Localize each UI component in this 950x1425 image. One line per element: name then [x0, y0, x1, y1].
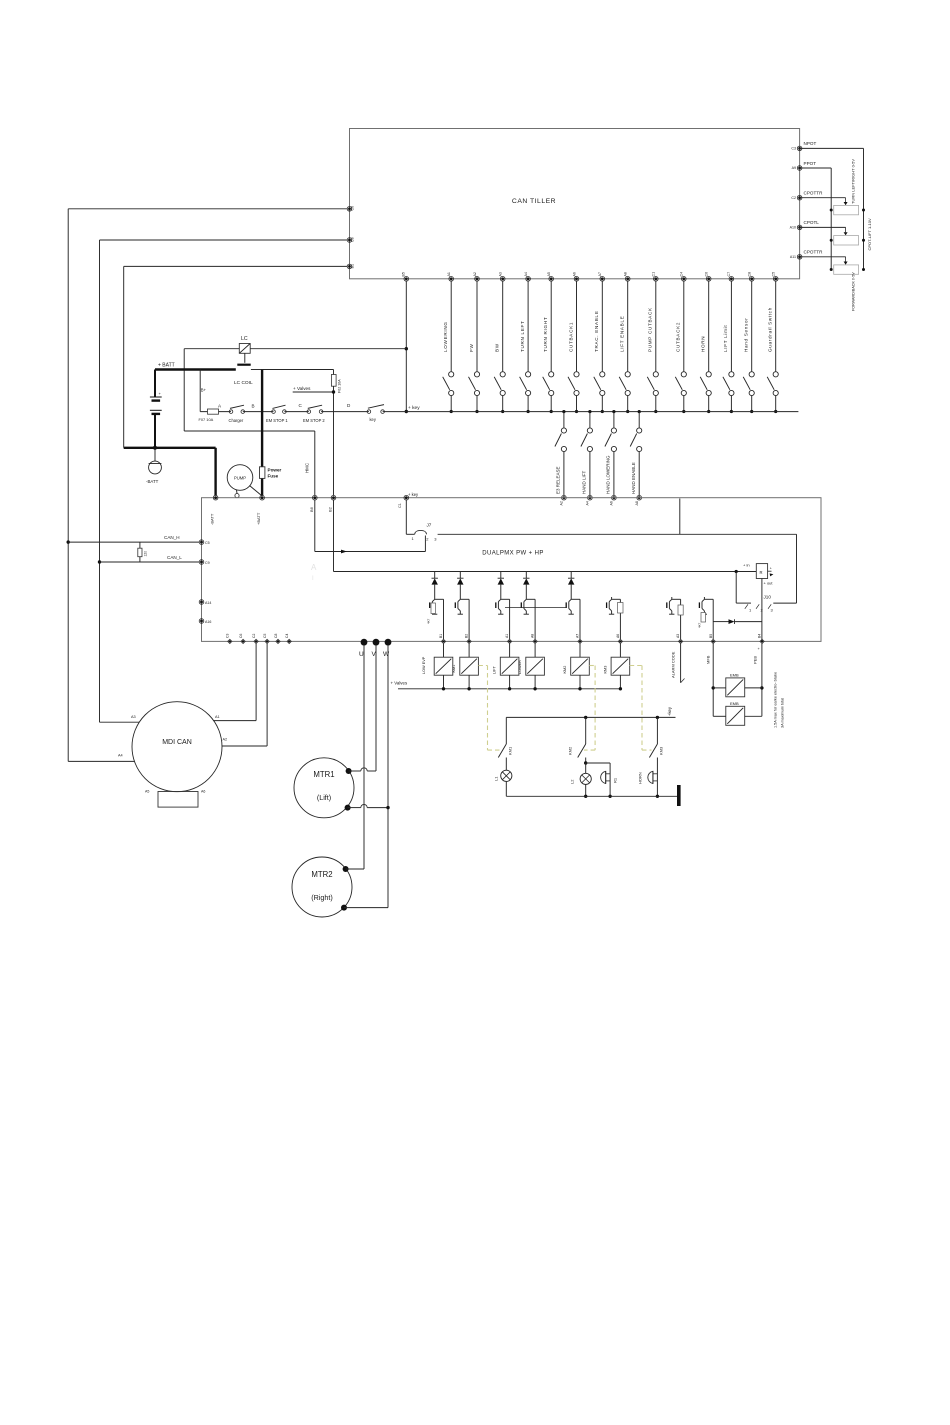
- svg-text:C3: C3: [226, 634, 230, 638]
- svg-text:C5: C5: [263, 634, 267, 638]
- svg-text:B5: B5: [402, 272, 406, 276]
- svg-text:A6: A6: [201, 790, 205, 794]
- svg-text:CPOTTR: CPOTTR: [804, 250, 824, 255]
- wire CPOT wiper 2: [800, 227, 848, 235]
- svg-text:LOWERING: LOWERING: [443, 321, 448, 352]
- coil KM3: [604, 644, 630, 691]
- svg-text:HORN: HORN: [701, 336, 706, 352]
- note electro-brake: [774, 672, 785, 728]
- pin C1 +key (DUALPMX): [398, 492, 419, 508]
- svg-text:F02 10A: F02 10A: [338, 379, 342, 393]
- svg-text:R: R: [760, 570, 763, 575]
- svg-text:A2: A2: [560, 501, 564, 505]
- driver MOSFET MFB: [698, 597, 714, 639]
- wire lamp return: [506, 795, 677, 797]
- pin A10 CPOTL (CAN TILLER right): [790, 220, 820, 230]
- lamp L1: [494, 770, 512, 796]
- svg-text:B4: B4: [758, 634, 762, 638]
- svg-text:A11: A11: [790, 255, 796, 259]
- svg-text:PUMP CUTBACK: PUMP CUTBACK: [648, 307, 653, 352]
- contact EM STOP 1: [266, 403, 303, 423]
- svg-text:A7: A7: [576, 634, 580, 638]
- label MDI A4: [118, 754, 123, 758]
- pin C8 (DUALPMX bottom): [274, 634, 280, 644]
- svg-text:C3: C3: [791, 147, 796, 151]
- svg-text:-BATT: -BATT: [146, 479, 159, 484]
- svg-text:A2: A2: [473, 272, 477, 276]
- svg-text:MDI CAN: MDI CAN: [162, 739, 192, 746]
- wire LC coil right to B5: [250, 348, 406, 350]
- resistor R (+in): [743, 563, 773, 586]
- svg-text:+: +: [770, 567, 772, 571]
- wire rail3 (B1 to -BATT): [124, 266, 348, 447]
- svg-text:EMB: EMB: [730, 672, 739, 677]
- wire C1 to J7 pin1: [406, 500, 414, 534]
- svg-text:A8: A8: [635, 501, 639, 505]
- line ALARM CODE: [671, 644, 685, 683]
- svg-text:A3: A3: [131, 715, 136, 719]
- svg-text:KM1: KM1: [508, 746, 513, 755]
- wire MTR1 bottom to W: [348, 804, 390, 809]
- svg-text:PPOT: PPOT: [804, 161, 817, 166]
- svg-text:C6: C6: [705, 272, 709, 277]
- switch LOWERING (pin A1): [443, 272, 454, 413]
- label FORWARD/BACK 0-5V: [852, 272, 856, 311]
- svg-text:4K7: 4K7: [427, 618, 431, 624]
- wire +key lamp rail: [506, 706, 675, 717]
- buzzer R1: [586, 763, 618, 798]
- switch HORN (pin C6): [700, 272, 711, 413]
- svg-text:HMC: HMC: [304, 463, 309, 473]
- svg-text:Fuse: Fuse: [268, 474, 279, 479]
- link KM2 dashed: [584, 666, 595, 751]
- svg-text:NPOT: NPOT: [804, 141, 817, 146]
- svg-text:C9: C9: [205, 561, 210, 565]
- pin B2 (DUALPMX): [328, 495, 336, 512]
- pin C5 (DUALPMX bottom): [263, 634, 269, 644]
- terminal W: [383, 639, 391, 658]
- wire LC coil left to B6 (HMC): [184, 349, 315, 496]
- svg-text:C4: C4: [285, 634, 289, 638]
- pin C8 (CAN TILLER left 2): [347, 237, 354, 242]
- fuse F07 10A: [199, 404, 223, 422]
- svg-text:(Right): (Right): [311, 893, 333, 902]
- label TURN LEFT/RIGHT 0-5V: [851, 159, 856, 204]
- svg-text:+ Valves: + Valves: [293, 386, 311, 391]
- coil LOW EVP: [422, 644, 453, 691]
- svg-text:B2: B2: [465, 634, 469, 638]
- svg-text:A2: A2: [223, 738, 228, 742]
- svg-text:A3: A3: [499, 272, 503, 276]
- svg-text:A1: A1: [447, 272, 451, 276]
- svg-text:C5: C5: [772, 272, 776, 277]
- pin -BATT (DUALPMX): [210, 495, 218, 525]
- pin A8 (DUALPMX bottom right): [531, 634, 538, 644]
- pin A7 (DUALPMX bottom right): [576, 634, 583, 644]
- diode MFB to PEB: [713, 619, 762, 624]
- svg-text:1.5A max for earke electro- br: 1.5A max for earke electro- brake: [774, 672, 778, 728]
- svg-text:EMB: EMB: [730, 701, 739, 706]
- svg-text:DUALPMX PW + HP: DUALPMX PW + HP: [482, 551, 544, 557]
- svg-text:HAND LIFT: HAND LIFT: [582, 470, 587, 494]
- svg-text:A4: A4: [524, 272, 528, 276]
- pin C4 (DUALPMX bottom): [285, 634, 291, 644]
- wire NPOT to pot column: [800, 148, 864, 269]
- svg-text:LIFT: LIFT: [493, 666, 497, 674]
- svg-text:-BATT: -BATT: [210, 513, 215, 525]
- fuse F02 10A (+Valves): [262, 370, 341, 496]
- wire B+ drop: [199, 370, 201, 412]
- controller CAN TILLER: [350, 129, 800, 279]
- switch Guardrail Switch (pin C5): [767, 272, 778, 413]
- svg-text:LC: LC: [241, 336, 248, 342]
- contact Charger: [229, 404, 255, 423]
- svg-text:+ in: + in: [743, 563, 750, 568]
- svg-text:+ Valves: + Valves: [391, 681, 408, 686]
- pin A3 (DUALPMX bottom right): [676, 634, 683, 644]
- wire MTR2 top to U: [346, 868, 364, 870]
- svg-text:TRAC. ENABLE: TRAC. ENABLE: [594, 310, 599, 352]
- svg-text:C5: C5: [205, 541, 210, 545]
- svg-text:CPOTL: CPOTL: [804, 220, 820, 225]
- driver MOSFET ALARM CODE: [667, 597, 683, 639]
- switch HAND LIFT: [581, 410, 593, 506]
- svg-text:B1: B1: [439, 634, 443, 638]
- svg-text:E3 RELEASE: E3 RELEASE: [556, 466, 561, 494]
- svg-text:R1: R1: [613, 777, 618, 783]
- motor MTR1 (Lift): [294, 758, 354, 818]
- driver MOSFET LOW EVP: [430, 572, 444, 640]
- svg-text:EM STOP 2: EM STOP 2: [303, 418, 325, 423]
- connector J10: [736, 572, 773, 642]
- display MDI CAN: [132, 702, 222, 807]
- link KM1 dashed: [478, 666, 500, 751]
- wire CAN_H: [67, 535, 200, 544]
- wire MFB: [706, 644, 715, 717]
- key line A-B-C-D: [200, 411, 798, 413]
- svg-text:A10: A10: [790, 226, 796, 230]
- svg-text:FW: FW: [469, 343, 474, 352]
- svg-text:B+: B+: [201, 388, 207, 393]
- potentiometer 2: [830, 236, 865, 245]
- ground: [677, 785, 681, 806]
- wire MDI A1: [214, 644, 257, 721]
- svg-text:+BATT: +BATT: [256, 512, 261, 525]
- pin B5 (DUALPMX bottom right): [709, 634, 716, 644]
- svg-text:key: key: [370, 417, 377, 422]
- wire CPOT wiper 3: [800, 257, 848, 265]
- svg-text:KM3: KM3: [604, 666, 608, 674]
- horn HORN: [638, 771, 658, 784]
- svg-text:A4: A4: [118, 754, 123, 758]
- svg-text:J7: J7: [427, 523, 432, 528]
- wire B5 to LC coil and +key: [405, 281, 408, 413]
- coil LIFT: [493, 644, 519, 691]
- coil EMB 1: [713, 672, 762, 697]
- switch FW (pin A2): [469, 272, 480, 413]
- svg-text:Power: Power: [268, 468, 282, 473]
- svg-text:A7: A7: [598, 272, 602, 276]
- switch TURN RIGHT (pin A5): [543, 272, 554, 413]
- svg-text:C6: C6: [351, 206, 355, 211]
- watermark: [311, 563, 317, 582]
- svg-text:U: U: [359, 651, 364, 658]
- svg-text:Charger: Charger: [229, 418, 244, 423]
- label MDI A3: [131, 715, 136, 719]
- svg-text:A14: A14: [205, 601, 211, 605]
- svg-text:A1: A1: [505, 634, 509, 638]
- svg-text:CAN TILLER: CAN TILLER: [512, 198, 556, 205]
- svg-text:A8: A8: [624, 272, 628, 276]
- svg-text:TURN LEFT: TURN LEFT: [520, 320, 525, 352]
- svg-text:L2: L2: [570, 779, 575, 784]
- driver MOSFET LOWER: [521, 572, 535, 640]
- wire -BATT thick: [124, 446, 216, 496]
- svg-text:LIFT ENABLE: LIFT ENABLE: [620, 316, 625, 352]
- switch CUTBACK2 (pin C4): [675, 272, 686, 413]
- svg-text:B1: B1: [351, 264, 355, 268]
- wire V phase: [375, 646, 377, 771]
- wire U phase: [363, 646, 365, 869]
- svg-text:C2: C2: [252, 634, 256, 638]
- pin C9 CAN_L: [199, 560, 209, 565]
- coil EMB 2: [713, 701, 762, 725]
- driver MOSFET KM2: [566, 572, 580, 640]
- svg-text:A4: A4: [586, 501, 590, 505]
- switch CUTBACK1 (pin A6): [568, 272, 579, 413]
- contactor LC: [237, 336, 250, 365]
- wire B2 internal rail: [334, 500, 757, 573]
- svg-text:B6: B6: [309, 506, 314, 512]
- svg-text:3A maximum total: 3A maximum total: [781, 698, 785, 728]
- coil LOWER: [518, 644, 544, 691]
- wire MTR2 bottom to W: [344, 907, 388, 909]
- svg-text:C1: C1: [652, 272, 656, 277]
- wire PEB: [753, 644, 764, 717]
- svg-text:C6: C6: [239, 634, 243, 638]
- pin A1 (DUALPMX bottom right): [505, 634, 512, 644]
- pin C2 CPOTTR (CAN TILLER right): [791, 191, 823, 201]
- driver MOSFET KM1: [455, 572, 469, 640]
- wire rail1 (C6 to CAN_H to MDI A4): [68, 209, 347, 762]
- svg-text:B5: B5: [709, 634, 713, 638]
- svg-text:LC COIL: LC COIL: [234, 380, 253, 386]
- svg-text:B2: B2: [328, 506, 333, 512]
- svg-text:KM2: KM2: [563, 666, 567, 674]
- svg-text:LOW EVP: LOW EVP: [422, 656, 426, 674]
- wire CPOT wiper 1: [800, 198, 848, 206]
- svg-text:KM3: KM3: [659, 746, 664, 755]
- switch HAND ENABLE: [630, 410, 642, 506]
- connector J7: [412, 523, 438, 542]
- svg-text:LIFT Limit: LIFT Limit: [723, 325, 728, 352]
- svg-text:A3: A3: [676, 634, 680, 638]
- pin B5 (CAN TILLER bottom, LC drive): [402, 272, 409, 281]
- wire + Valves rail: [391, 681, 621, 689]
- switch HAND LOWERING: [605, 410, 617, 506]
- switch TURN LEFT (pin A4): [520, 272, 531, 413]
- svg-text:CAN_H: CAN_H: [164, 535, 180, 540]
- lamp L2: [570, 763, 592, 798]
- pin C3 NPOT (CAN TILLER right): [791, 141, 816, 151]
- potentiometer 3: [830, 265, 865, 274]
- pin B6 (DUALPMX): [309, 495, 317, 512]
- svg-text:A5: A5: [547, 272, 551, 276]
- svg-text:+ key: + key: [408, 492, 419, 497]
- svg-text:J10: J10: [764, 595, 772, 600]
- wire PPOT to pot column: [800, 168, 832, 270]
- pin C3 (DUALPMX bottom): [226, 634, 232, 644]
- label CPOT-LIFT 1-10V: [867, 218, 872, 250]
- driver MOSFET LIFT: [496, 572, 510, 640]
- svg-text:120: 120: [144, 551, 148, 557]
- potentiometer 1: [830, 205, 865, 214]
- switch LIFT Limit (pin C7): [723, 272, 734, 413]
- pin B1 (DUALPMX bottom right): [439, 634, 446, 644]
- svg-text:(Lift): (Lift): [317, 793, 331, 802]
- svg-text:EM STOP 1: EM STOP 1: [266, 418, 288, 423]
- LC COIL circuit label: [201, 380, 253, 393]
- svg-text:BW: BW: [495, 343, 500, 352]
- wire CAN_L: [98, 555, 200, 564]
- svg-text:MTR2: MTR2: [311, 870, 332, 879]
- svg-text:PUMP: PUMP: [234, 476, 246, 481]
- resistor 120R termination: [138, 542, 148, 562]
- svg-text:PEB: PEB: [753, 656, 758, 664]
- switch E3 RELEASE: [555, 410, 567, 506]
- pin C2 (DUALPMX bottom): [252, 634, 258, 644]
- switch TRAC. ENABLE (pin A7): [594, 272, 605, 413]
- svg-text:A6: A6: [572, 272, 576, 276]
- wire MDI A2: [222, 644, 267, 746]
- svg-text:+ out: + out: [764, 581, 774, 586]
- svg-text:C8: C8: [351, 237, 355, 242]
- svg-text:TURN LEFT/RIGHT 0-5V: TURN LEFT/RIGHT 0-5V: [851, 159, 856, 204]
- svg-text:C2: C2: [791, 196, 796, 200]
- svg-text:C8: C8: [748, 272, 752, 277]
- pin A14: [199, 600, 211, 605]
- svg-text:HAND LOWERING: HAND LOWERING: [606, 455, 611, 494]
- switch Hand Sensor (pin C8): [743, 272, 754, 413]
- pin B4 (DUALPMX bottom right): [758, 634, 765, 644]
- fuse Power Fuse: [260, 370, 282, 496]
- pin +BATT (DUALPMX): [256, 495, 264, 525]
- svg-text:CAN_L: CAN_L: [167, 555, 182, 560]
- svg-text:MTR1: MTR1: [313, 770, 334, 779]
- wire W phase: [387, 646, 389, 908]
- svg-text:L1: L1: [494, 776, 499, 781]
- wire J7 pin3 to J10 pin3: [438, 534, 797, 603]
- svg-text:+key: +key: [667, 706, 672, 716]
- contact KM3: [649, 716, 663, 798]
- svg-text:KM1: KM1: [452, 665, 456, 673]
- svg-text:B: B: [252, 404, 255, 409]
- motor PUMP: [227, 465, 262, 498]
- svg-text:W: W: [383, 651, 390, 658]
- svg-text:KM2: KM2: [568, 746, 573, 755]
- svg-text:C1: C1: [398, 503, 402, 508]
- resistor gate (LOW EVP cell): [427, 603, 436, 624]
- svg-text:C4: C4: [680, 272, 684, 277]
- svg-text:CPOT-LIFT 1-10V: CPOT-LIFT 1-10V: [867, 218, 872, 250]
- svg-text:CUTBACK1: CUTBACK1: [568, 322, 573, 352]
- terminal -BATT: [146, 448, 161, 484]
- svg-text:FORWARD/BACK 0-5V: FORWARD/BACK 0-5V: [852, 272, 856, 311]
- wire J7 pin2 to B6: [315, 500, 426, 553]
- pin C5 CAN_H: [199, 540, 209, 545]
- svg-text:F07 10A: F07 10A: [199, 417, 214, 422]
- wire MTR1 top to V: [349, 768, 376, 771]
- pin B2 (DUALPMX bottom right): [465, 634, 472, 644]
- svg-text:Guardrail Switch: Guardrail Switch: [768, 307, 773, 352]
- coil KM1: [452, 644, 479, 691]
- label + Valves (top): [293, 386, 335, 394]
- svg-text:TURN RIGHT: TURN RIGHT: [543, 317, 548, 352]
- contact KM2: [568, 716, 588, 765]
- pin A6 (DUALPMX bottom right): [616, 634, 623, 644]
- svg-text:A9: A9: [792, 166, 796, 170]
- terminal U: [359, 639, 367, 658]
- pin C6 (DUALPMX bottom): [239, 634, 245, 644]
- svg-text:A: A: [311, 563, 317, 572]
- svg-text:MFB: MFB: [706, 655, 711, 664]
- switch LIFT ENABLE (pin A8): [619, 272, 630, 413]
- driver MOSFET KM3: [607, 597, 623, 639]
- pin A11 CPOTTR (CAN TILLER right): [790, 250, 823, 259]
- svg-text:A16: A16: [205, 620, 211, 624]
- motor MTR2 (Right): [292, 857, 352, 917]
- wire +BATT main: [155, 368, 262, 370]
- terminal V: [372, 639, 380, 658]
- svg-text:A8: A8: [531, 634, 535, 638]
- switch BW (pin A3): [494, 272, 505, 413]
- pin A9 PPOT (CAN TILLER right): [792, 161, 817, 171]
- contact KM1: [498, 717, 512, 770]
- label +BATT: [158, 363, 175, 369]
- coil KM2: [563, 644, 589, 691]
- svg-text:Hand Sensor: Hand Sensor: [744, 317, 749, 352]
- label HMC: [304, 463, 309, 473]
- pin B1 (CAN TILLER left 3): [347, 264, 354, 269]
- svg-text:4K7: 4K7: [698, 622, 702, 628]
- wire gate link: [505, 607, 566, 609]
- svg-text:HAND ENABLE: HAND ENABLE: [631, 462, 636, 494]
- svg-text:+ BATT: + BATT: [158, 363, 175, 369]
- svg-text:A5: A5: [145, 790, 149, 794]
- pin A16: [199, 619, 211, 624]
- controller DUALPMX PW + HP: [202, 498, 822, 642]
- battery BT1: [150, 370, 162, 448]
- wire rail2 (C8 to CAN_L to MDI A3): [100, 240, 348, 722]
- svg-text:C7: C7: [727, 272, 731, 277]
- pin C6 (CAN TILLER left 1): [347, 206, 354, 211]
- svg-text:CUTBACK2: CUTBACK2: [676, 322, 681, 352]
- wire top tap to J7J10 line: [679, 499, 681, 535]
- switch PUMP CUTBACK (pin C1): [647, 272, 658, 413]
- svg-text:A6: A6: [610, 501, 614, 505]
- svg-text:CPOTTR: CPOTTR: [804, 191, 824, 196]
- svg-text:ALARM CODE: ALARM CODE: [671, 651, 676, 678]
- svg-text:HORN: HORN: [638, 772, 643, 784]
- contact EM STOP 2: [303, 403, 351, 423]
- svg-text:A1: A1: [215, 715, 220, 719]
- svg-text:C8: C8: [274, 634, 278, 638]
- svg-text:+ key: + key: [408, 405, 420, 411]
- link KM3 dashed: [630, 666, 652, 751]
- switch key: [367, 405, 420, 422]
- svg-text:LOWER: LOWER: [518, 660, 522, 674]
- svg-text:A6: A6: [616, 634, 620, 638]
